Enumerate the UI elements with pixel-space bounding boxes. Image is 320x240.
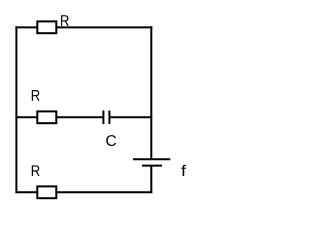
wire middle horizontal right segment (109, 116, 152, 118)
battery f long plate (133, 158, 170, 160)
capacitor C left plate (102, 111, 104, 125)
wire bottom horizontal (15, 191, 152, 193)
resistor R2 (middle) (37, 111, 56, 123)
resistor R1 (top) (37, 21, 56, 33)
wire left vertical (15, 26, 17, 193)
wire top horizontal (15, 26, 152, 28)
wire right vertical upper (150, 26, 152, 159)
label C (106, 135, 116, 146)
capacitor C right plate (108, 111, 110, 125)
battery f short plate (142, 165, 162, 167)
label f (181, 165, 186, 176)
label R3 (32, 165, 40, 176)
label R2 (32, 90, 40, 101)
wire right vertical lower (150, 166, 152, 194)
wire middle horizontal left segment (15, 116, 103, 118)
label R1 (61, 15, 69, 26)
resistor R3 (bottom) (37, 186, 56, 198)
